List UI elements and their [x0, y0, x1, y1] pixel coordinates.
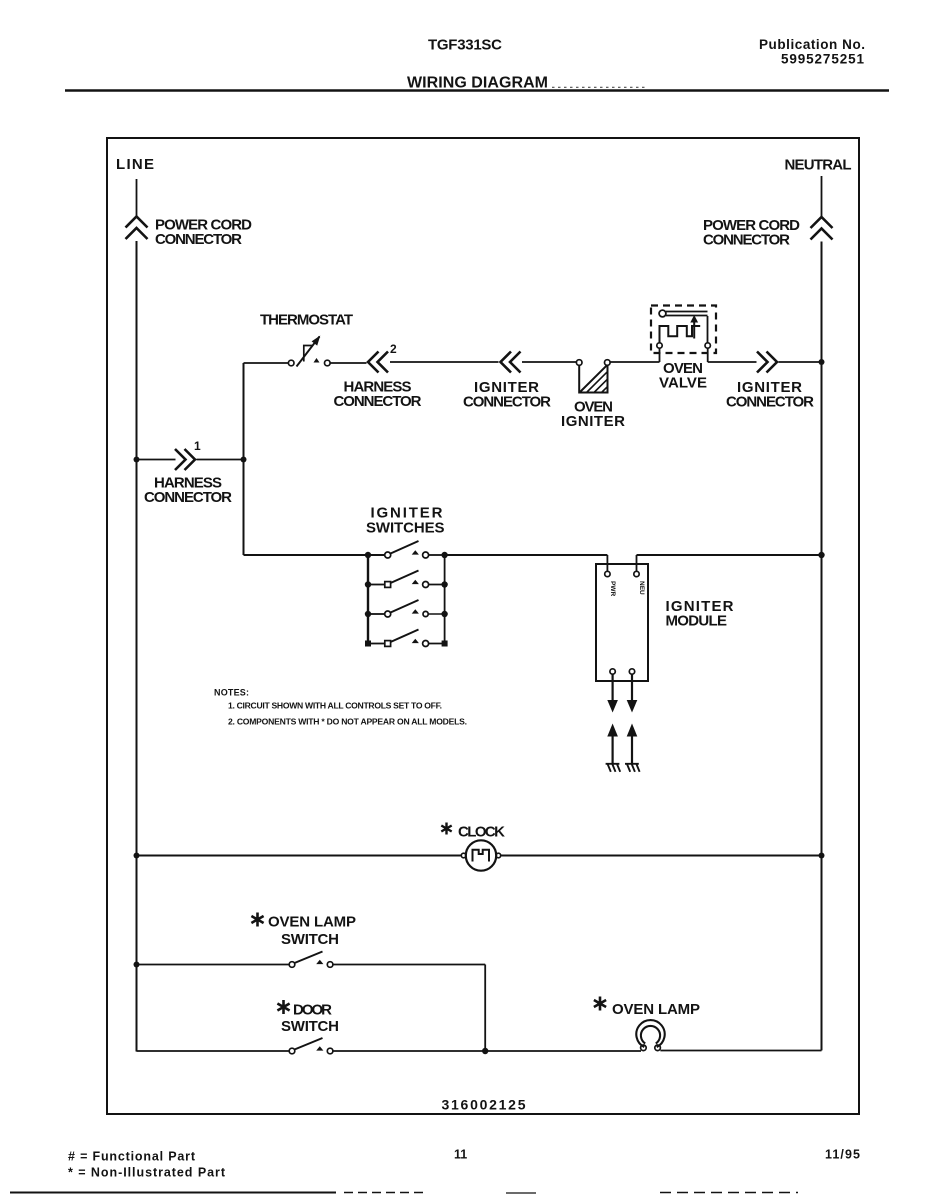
- svg-text:VALVE: VALVE: [659, 375, 707, 392]
- door switch asterisk: [277, 1000, 289, 1014]
- svg-text:TGF331SC: TGF331SC: [428, 37, 502, 54]
- wire thermostat row left: [244, 362, 289, 364]
- igniter switch 3: [365, 600, 448, 617]
- svg-text:OVEN LAMP: OVEN LAMP: [612, 1001, 700, 1018]
- wire right NEUTRAL vertical upper: [821, 176, 823, 217]
- svg-text:11/95: 11/95: [825, 1148, 860, 1162]
- header rule: [65, 89, 889, 92]
- wire left LINE vertical main: [136, 241, 138, 1052]
- junction dot bus left rail: [365, 552, 371, 558]
- svg-text:THERMOSTAT: THERMOSTAT: [260, 312, 353, 329]
- junction dot clock right: [819, 853, 825, 859]
- svg-text:NEU: NEU: [638, 581, 645, 595]
- switch right rail: [444, 555, 446, 644]
- wire door switch row: [137, 1050, 290, 1052]
- svg-text:CONNECTOR: CONNECTOR: [726, 394, 814, 411]
- wire vertical x243 thermostat to bus: [243, 363, 245, 555]
- wire module NEU to neutral vertical: [637, 554, 822, 556]
- svg-text:CONNECTOR: CONNECTOR: [334, 393, 422, 410]
- oven valve: [651, 306, 716, 363]
- svg-text:OVEN LAMP: OVEN LAMP: [268, 914, 356, 931]
- footer rule: [10, 1192, 336, 1194]
- wire clock row left: [137, 855, 462, 857]
- wire oven lamp switch row: [137, 964, 290, 966]
- wire oven igniter to oven valve: [610, 361, 659, 363]
- switch left rail: [367, 555, 369, 644]
- svg-text:316002125: 316002125: [442, 1097, 526, 1113]
- bus wire x243 to switches: [244, 554, 385, 556]
- junction dot bus right rail: [441, 552, 447, 558]
- clock motor symbol: [461, 840, 500, 870]
- diagram border box: [107, 138, 859, 1114]
- svg-text:PWR: PWR: [609, 581, 616, 596]
- svg-text:CONNECTOR: CONNECTOR: [155, 231, 242, 248]
- wire door switch to oven lamp: [333, 1050, 641, 1052]
- oven lamp asterisk: [594, 997, 606, 1011]
- burner ground left: [606, 764, 621, 772]
- harness connector 2 chevrons: [368, 352, 388, 373]
- svg-text:11: 11: [454, 1148, 467, 1162]
- svg-text:NEUTRAL: NEUTRAL: [785, 157, 852, 174]
- wire thermostat to harness connector 2: [330, 362, 366, 364]
- igniter switch 1: [385, 541, 442, 558]
- thermostat symbol: [288, 336, 330, 367]
- svg-text:2. COMPONENTS WITH * DO NOT AP: 2. COMPONENTS WITH * DO NOT APPEAR ON AL…: [228, 717, 467, 727]
- svg-text:IGNITER: IGNITER: [561, 413, 625, 430]
- wire clock row right: [501, 855, 822, 857]
- svg-text:1: 1: [194, 439, 201, 453]
- junction dot door wire: [482, 1048, 488, 1054]
- spark gap arrow up left: [611, 735, 613, 763]
- module PWR pin: [605, 571, 610, 576]
- svg-text:MODULE: MODULE: [666, 613, 728, 630]
- spark electrode arrow down left: [611, 674, 613, 701]
- svg-text:CONNECTOR: CONNECTOR: [703, 232, 790, 249]
- wire lamp switch to corner: [333, 964, 485, 966]
- svg-text:1. CIRCUIT SHOWN WITH ALL CONT: 1. CIRCUIT SHOWN WITH ALL CONTROLS SET T…: [228, 701, 442, 711]
- spark electrode arrow down right: [631, 674, 633, 701]
- oven lamp switch asterisk: [251, 913, 263, 927]
- wire left LINE vertical upper: [136, 179, 138, 216]
- module bottom pin right: [629, 669, 634, 674]
- igniter switch 2: [365, 571, 448, 588]
- module PWR pin wire: [606, 555, 608, 572]
- igniter module box: [596, 564, 648, 681]
- wire oven valve to igniter connector right: [708, 361, 757, 363]
- wire right NEUTRAL vertical main: [821, 242, 823, 1051]
- power cord connector right chevrons: [811, 217, 833, 240]
- wire harness connector 1 row: [137, 459, 244, 461]
- svg-text:SWITCH: SWITCH: [281, 1018, 339, 1035]
- oven igniter: [576, 360, 610, 393]
- svg-text:5995275251: 5995275251: [781, 52, 864, 67]
- wire igniter connector right to neutral: [779, 361, 822, 363]
- wire harness 2 to igniter connector left: [390, 361, 499, 363]
- svg-text:NOTES:: NOTES:: [214, 688, 249, 698]
- power cord connector left chevrons: [126, 217, 148, 240]
- svg-text:2: 2: [390, 342, 397, 356]
- header rule dashed tail: [552, 86, 645, 88]
- junction dot neutral at row 362: [819, 359, 825, 365]
- igniter switch 4: [365, 630, 448, 647]
- harness connector 1 chevrons: [175, 449, 195, 470]
- bus wire switches to module: [445, 554, 608, 556]
- module NEU pin: [634, 571, 639, 576]
- svg-text:CONNECTOR: CONNECTOR: [463, 394, 551, 411]
- igniter connector right chevrons: [757, 352, 777, 373]
- spark gap arrow up right: [631, 735, 633, 763]
- svg-text:CLOCK: CLOCK: [458, 824, 505, 841]
- wire oven lamp to neutral corner: [660, 1046, 821, 1051]
- svg-text:CONNECTOR: CONNECTOR: [144, 489, 232, 506]
- svg-text:SWITCHES: SWITCHES: [366, 520, 445, 537]
- burner ground right: [625, 764, 640, 772]
- oven lamp switch: [289, 952, 333, 968]
- svg-text:* = Non-Illustrated Part: * = Non-Illustrated Part: [68, 1166, 226, 1180]
- door switch: [289, 1038, 333, 1054]
- svg-text:WIRING DIAGRAM: WIRING DIAGRAM: [407, 75, 548, 92]
- clock asterisk: [441, 823, 451, 835]
- igniter connector left chevrons: [501, 352, 521, 373]
- junction dot x243 at harness row: [241, 457, 247, 463]
- junction dot clock left: [134, 853, 140, 859]
- svg-text:SWITCH: SWITCH: [281, 931, 339, 948]
- module NEU pin wire: [636, 555, 638, 572]
- wire vertical lamp switch branch: [484, 965, 486, 1052]
- svg-text:LINE: LINE: [116, 156, 154, 173]
- svg-text:Publication No.: Publication No.: [759, 37, 865, 52]
- wire igniter connector to oven igniter: [522, 361, 576, 363]
- module bottom pin left: [610, 669, 615, 674]
- junction dot left vertical at harness row: [134, 457, 140, 463]
- junction dot left vertical lamp switch row: [134, 962, 140, 968]
- junction dot neutral at bus row: [818, 552, 824, 558]
- svg-text:DOOR: DOOR: [293, 1002, 332, 1019]
- oven lamp symbol: [636, 1020, 664, 1051]
- svg-text:# = Functional Part: # = Functional Part: [68, 1150, 196, 1164]
